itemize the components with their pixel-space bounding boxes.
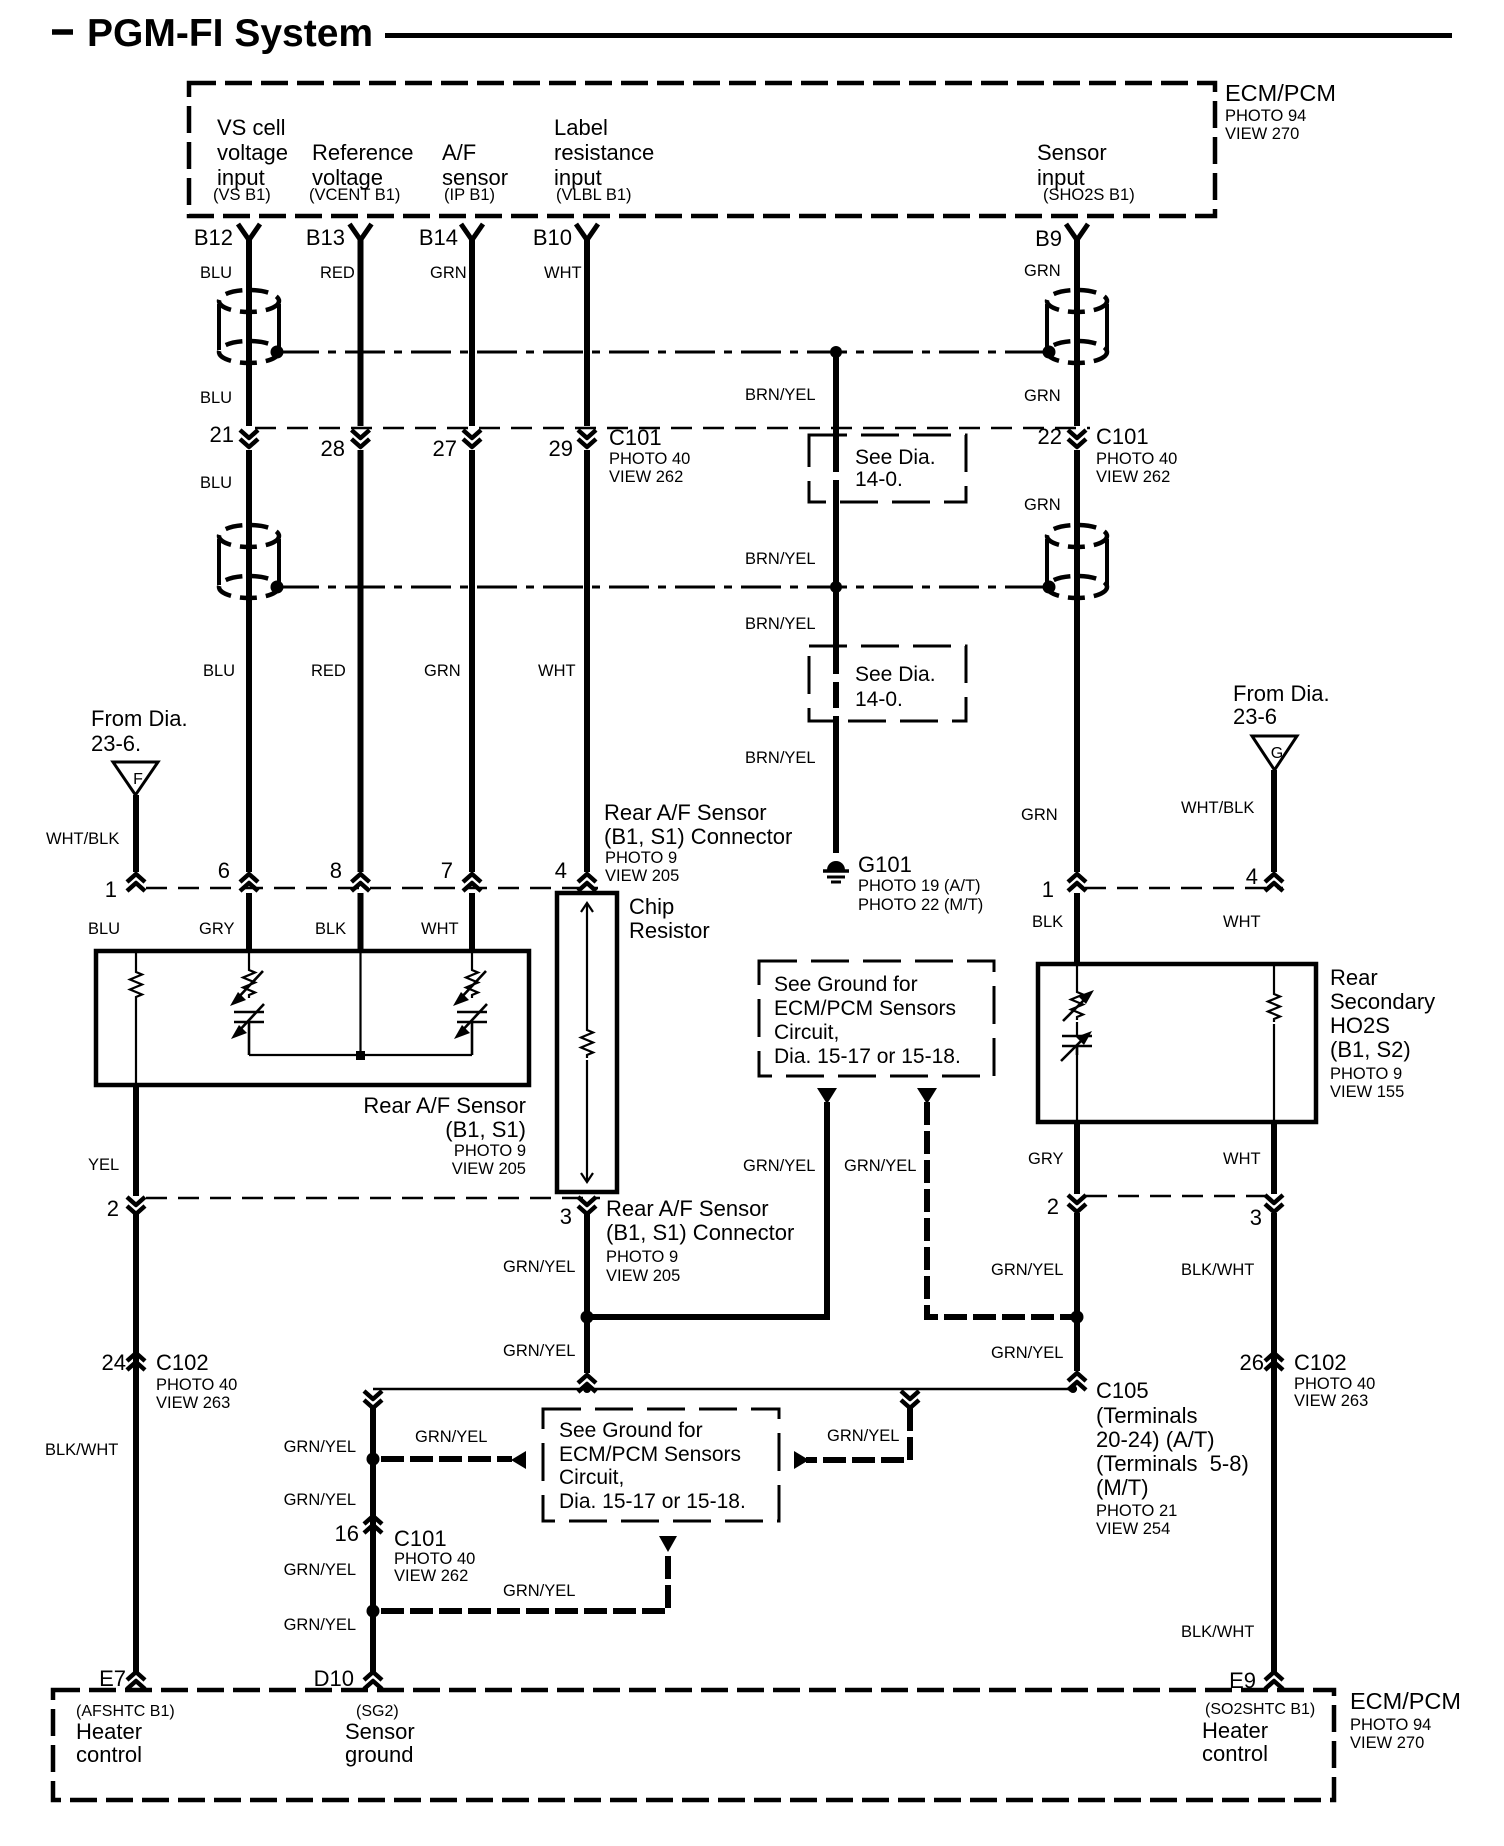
svg-text:(VS B1): (VS B1) <box>213 186 271 204</box>
svg-text:(Terminals 5-8): (Terminals 5-8) <box>1096 1451 1249 1476</box>
svg-text:3: 3 <box>1250 1205 1262 1230</box>
svg-text:6: 6 <box>218 858 230 883</box>
svg-text:28: 28 <box>321 436 345 461</box>
svg-text:(VLBL B1): (VLBL B1) <box>556 186 632 204</box>
svg-text:GRN/YEL: GRN/YEL <box>284 1438 356 1456</box>
svg-text:B10: B10 <box>533 225 572 250</box>
svg-text:PGM-FI System: PGM-FI System <box>87 12 373 55</box>
svg-text:GRN/YEL: GRN/YEL <box>503 1258 575 1276</box>
svg-text:PHOTO 94: PHOTO 94 <box>1225 107 1306 125</box>
svg-text:resistance: resistance <box>554 140 654 165</box>
svg-text:BRN/YEL: BRN/YEL <box>745 550 816 568</box>
svg-text:PHOTO 40: PHOTO 40 <box>156 1376 237 1394</box>
svg-text:G: G <box>1271 745 1283 762</box>
svg-text:Circuit,: Circuit, <box>774 1021 839 1044</box>
svg-text:GRN/YEL: GRN/YEL <box>827 1427 899 1445</box>
svg-text:G101: G101 <box>858 852 912 877</box>
svg-text:3: 3 <box>560 1204 572 1229</box>
svg-text:PHOTO 40: PHOTO 40 <box>609 450 690 468</box>
svg-text:VIEW 262: VIEW 262 <box>1096 468 1170 486</box>
svg-text:BLK/WHT: BLK/WHT <box>1181 1261 1254 1279</box>
svg-text:(AFSHTC B1): (AFSHTC B1) <box>76 1703 175 1720</box>
svg-text:VIEW 263: VIEW 263 <box>1294 1392 1368 1410</box>
svg-text:C102: C102 <box>156 1350 209 1375</box>
svg-text:GRN: GRN <box>430 264 467 282</box>
svg-text:GRN: GRN <box>1024 496 1061 514</box>
svg-text:VIEW 263: VIEW 263 <box>156 1394 230 1412</box>
svg-text:See Ground for: See Ground for <box>559 1419 703 1442</box>
svg-text:YEL: YEL <box>88 1156 119 1174</box>
svg-text:HO2S: HO2S <box>1330 1013 1390 1038</box>
svg-text:GRN/YEL: GRN/YEL <box>991 1344 1063 1362</box>
svg-text:Heater: Heater <box>1202 1718 1268 1743</box>
svg-text:Rear: Rear <box>1330 965 1378 990</box>
svg-text:Secondary: Secondary <box>1330 989 1435 1014</box>
svg-text:ECM/PCM: ECM/PCM <box>1350 1688 1461 1714</box>
svg-text:WHT/BLK: WHT/BLK <box>46 830 119 848</box>
svg-text:GRN/YEL: GRN/YEL <box>991 1261 1063 1279</box>
svg-text:VIEW 205: VIEW 205 <box>452 1160 526 1178</box>
svg-text:Heater: Heater <box>76 1719 142 1744</box>
svg-text:C101: C101 <box>1096 424 1149 449</box>
svg-text:4: 4 <box>555 858 567 883</box>
svg-text:(Terminals: (Terminals <box>1096 1403 1197 1428</box>
svg-text:VIEW 205: VIEW 205 <box>605 867 679 885</box>
svg-text:PHOTO 9: PHOTO 9 <box>605 849 677 867</box>
svg-text:See Dia.: See Dia. <box>855 663 936 686</box>
svg-text:PHOTO 9: PHOTO 9 <box>454 1142 526 1160</box>
svg-text:23-6: 23-6 <box>1233 704 1277 729</box>
svg-text:1: 1 <box>105 877 117 902</box>
svg-text:PHOTO 40: PHOTO 40 <box>1294 1375 1375 1393</box>
svg-text:From Dia.: From Dia. <box>1233 681 1330 706</box>
svg-text:4: 4 <box>1246 864 1258 889</box>
svg-text:Rear A/F Sensor: Rear A/F Sensor <box>606 1196 769 1221</box>
svg-text:PHOTO 21: PHOTO 21 <box>1096 1502 1177 1520</box>
svg-text:Reference: Reference <box>312 140 414 165</box>
svg-text:Sensor: Sensor <box>1037 140 1107 165</box>
svg-text:Circuit,: Circuit, <box>559 1466 624 1489</box>
svg-text:2: 2 <box>1047 1194 1059 1219</box>
svg-text:A/F: A/F <box>442 140 476 165</box>
svg-text:(SHO2S B1): (SHO2S B1) <box>1043 186 1135 204</box>
svg-text:Dia. 15-17 or 15-18.: Dia. 15-17 or 15-18. <box>559 1490 746 1513</box>
svg-text:23-6.: 23-6. <box>91 731 141 756</box>
svg-text:VIEW 262: VIEW 262 <box>609 468 683 486</box>
svg-text:control: control <box>1202 1741 1268 1766</box>
svg-text:C105: C105 <box>1096 1378 1149 1403</box>
svg-text:26: 26 <box>1240 1350 1264 1375</box>
svg-text:Dia. 15-17 or 15-18.: Dia. 15-17 or 15-18. <box>774 1045 961 1068</box>
svg-text:RED: RED <box>311 662 346 680</box>
svg-text:VIEW 270: VIEW 270 <box>1350 1734 1424 1752</box>
svg-text:BLU: BLU <box>203 662 235 680</box>
svg-text:BRN/YEL: BRN/YEL <box>745 749 816 767</box>
svg-text:ECM/PCM: ECM/PCM <box>1225 80 1336 106</box>
svg-text:PHOTO 22 (M/T): PHOTO 22 (M/T) <box>858 896 983 914</box>
svg-text:Sensor: Sensor <box>345 1719 415 1744</box>
svg-text:GRN/YEL: GRN/YEL <box>503 1582 575 1600</box>
svg-text:See Ground for: See Ground for <box>774 973 918 996</box>
svg-text:16: 16 <box>335 1521 359 1546</box>
svg-text:GRN/YEL: GRN/YEL <box>503 1342 575 1360</box>
svg-text:BRN/YEL: BRN/YEL <box>745 615 816 633</box>
svg-text:B9: B9 <box>1035 226 1062 251</box>
svg-text:E7: E7 <box>99 1666 126 1691</box>
svg-text:GRN/YEL: GRN/YEL <box>743 1157 815 1175</box>
svg-text:(VCENT B1): (VCENT B1) <box>309 186 400 204</box>
svg-text:Resistor: Resistor <box>629 918 710 943</box>
svg-text:GRN/YEL: GRN/YEL <box>284 1616 356 1634</box>
svg-text:PHOTO 19 (A/T): PHOTO 19 (A/T) <box>858 877 981 895</box>
svg-text:B14: B14 <box>419 225 458 250</box>
svg-text:GRY: GRY <box>199 920 234 938</box>
svg-text:8: 8 <box>330 858 342 883</box>
svg-text:GRN/YEL: GRN/YEL <box>415 1428 487 1446</box>
svg-text:GRN/YEL: GRN/YEL <box>284 1491 356 1509</box>
svg-text:From Dia.: From Dia. <box>91 706 188 731</box>
svg-text:VIEW 270: VIEW 270 <box>1225 125 1299 143</box>
svg-text:C102: C102 <box>1294 1350 1347 1375</box>
svg-text:27: 27 <box>433 436 457 461</box>
svg-text:Rear A/F Sensor: Rear A/F Sensor <box>604 800 767 825</box>
svg-text:(SG2): (SG2) <box>356 1703 399 1720</box>
svg-text:ground: ground <box>345 1742 414 1767</box>
svg-text:BRN/YEL: BRN/YEL <box>745 386 816 404</box>
svg-text:C101: C101 <box>394 1526 447 1551</box>
svg-text:(M/T): (M/T) <box>1096 1475 1149 1500</box>
svg-text:BLU: BLU <box>200 474 232 492</box>
svg-text:WHT: WHT <box>1223 1150 1261 1168</box>
svg-text:PHOTO 9: PHOTO 9 <box>1330 1065 1402 1083</box>
svg-text:B12: B12 <box>194 225 233 250</box>
svg-text:(B1, S1) Connector: (B1, S1) Connector <box>604 824 792 849</box>
svg-text:(B1, S2): (B1, S2) <box>1330 1037 1411 1062</box>
svg-text:GRN: GRN <box>424 662 461 680</box>
svg-text:BLK: BLK <box>315 920 346 938</box>
svg-text:(B1, S1) Connector: (B1, S1) Connector <box>606 1220 794 1245</box>
svg-text:WHT: WHT <box>538 662 576 680</box>
svg-text:14-0.: 14-0. <box>855 688 903 711</box>
svg-text:VIEW 262: VIEW 262 <box>394 1567 468 1585</box>
svg-text:BLK/WHT: BLK/WHT <box>1181 1623 1254 1641</box>
svg-text:1: 1 <box>1042 877 1054 902</box>
svg-text:GRN/YEL: GRN/YEL <box>284 1561 356 1579</box>
svg-text:F: F <box>133 771 143 788</box>
svg-text:ECM/PCM Sensors: ECM/PCM Sensors <box>774 997 956 1020</box>
svg-text:VS cell: VS cell <box>217 115 285 140</box>
svg-text:WHT/BLK: WHT/BLK <box>1181 799 1254 817</box>
svg-text:WHT: WHT <box>1223 913 1261 931</box>
svg-text:GRY: GRY <box>1028 1150 1063 1168</box>
svg-text:(B1, S1): (B1, S1) <box>445 1117 526 1142</box>
svg-text:BLU: BLU <box>88 920 120 938</box>
svg-text:PHOTO 9: PHOTO 9 <box>606 1248 678 1266</box>
svg-text:E9: E9 <box>1229 1668 1256 1693</box>
svg-text:(SO2SHTC B1): (SO2SHTC B1) <box>1205 1701 1315 1718</box>
svg-text:GRN: GRN <box>1024 262 1061 280</box>
svg-text:VIEW 254: VIEW 254 <box>1096 1520 1170 1538</box>
svg-text:29: 29 <box>549 436 573 461</box>
svg-text:ECM/PCM Sensors: ECM/PCM Sensors <box>559 1443 741 1466</box>
svg-text:PHOTO 40: PHOTO 40 <box>1096 450 1177 468</box>
svg-text:voltage: voltage <box>217 140 288 165</box>
svg-text:BLU: BLU <box>200 264 232 282</box>
svg-text:GRN: GRN <box>1024 387 1061 405</box>
svg-text:BLK/WHT: BLK/WHT <box>45 1441 118 1459</box>
svg-text:22: 22 <box>1038 424 1062 449</box>
svg-text:GRN: GRN <box>1021 806 1058 824</box>
svg-text:PHOTO 94: PHOTO 94 <box>1350 1716 1431 1734</box>
svg-text:21: 21 <box>210 422 234 447</box>
svg-text:14-0.: 14-0. <box>855 468 903 491</box>
svg-text:RED: RED <box>320 264 355 282</box>
svg-text:WHT: WHT <box>421 920 459 938</box>
svg-text:See Dia.: See Dia. <box>855 446 936 469</box>
svg-text:2: 2 <box>107 1196 119 1221</box>
svg-text:PHOTO 40: PHOTO 40 <box>394 1550 475 1568</box>
svg-text:C101: C101 <box>609 425 662 450</box>
svg-text:GRN/YEL: GRN/YEL <box>844 1157 916 1175</box>
svg-text:BLK: BLK <box>1032 913 1063 931</box>
svg-text:(IP B1): (IP B1) <box>444 186 495 204</box>
svg-text:20-24) (A/T): 20-24) (A/T) <box>1096 1427 1215 1452</box>
svg-text:24: 24 <box>102 1350 126 1375</box>
svg-text:Chip: Chip <box>629 894 674 919</box>
svg-text:BLU: BLU <box>200 389 232 407</box>
svg-text:WHT: WHT <box>544 264 582 282</box>
svg-text:7: 7 <box>441 858 453 883</box>
svg-text:Rear A/F Sensor: Rear A/F Sensor <box>363 1093 526 1118</box>
svg-text:B13: B13 <box>306 225 345 250</box>
svg-text:VIEW 205: VIEW 205 <box>606 1267 680 1285</box>
svg-text:Label: Label <box>554 115 608 140</box>
svg-text:VIEW 155: VIEW 155 <box>1330 1083 1404 1101</box>
svg-text:control: control <box>76 1742 142 1767</box>
svg-text:D10: D10 <box>314 1666 354 1691</box>
